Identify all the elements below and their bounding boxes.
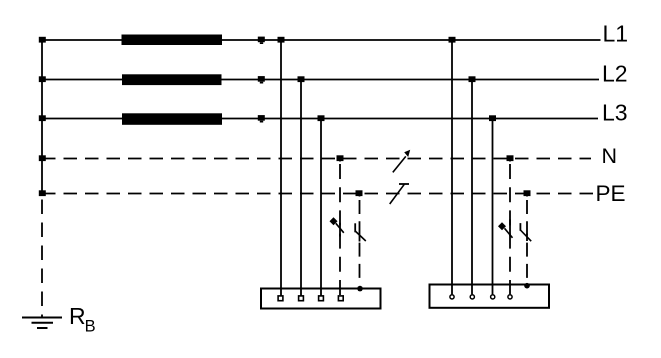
node load1 PE bond dot <box>357 286 363 292</box>
wire load2 N drop dashed <box>509 159 511 295</box>
node bus-L1 <box>39 37 46 43</box>
svg-text:R: R <box>69 303 86 329</box>
node terminal mark L1 <box>258 37 265 44</box>
node bus-PE <box>39 190 46 196</box>
node load1 PE tap <box>356 190 363 196</box>
switch S1 on load1 N drop <box>330 217 344 236</box>
svg-text:L1: L1 <box>603 21 629 47</box>
node load2 L3 tap <box>489 115 496 121</box>
wire load2 L1 drop <box>451 40 453 294</box>
svg-text:B: B <box>85 318 96 336</box>
switch S5 on load2 N drop <box>498 220 513 238</box>
wire L2 horizontal <box>42 79 599 81</box>
node load1 L2 tap <box>298 76 305 82</box>
load1 terminal T3 <box>319 296 324 301</box>
node load2 L2 tap <box>469 76 476 82</box>
svg-text:N: N <box>602 144 618 168</box>
node load1 L1 tap <box>278 37 285 43</box>
node load2 PE tap <box>524 190 531 196</box>
wire load1 L2 drop <box>300 80 302 297</box>
load2 terminal T2 <box>470 295 474 299</box>
switch S6 on load2 PE drop <box>520 223 531 241</box>
label N <box>602 144 618 168</box>
wire load2 L2 drop <box>471 80 473 295</box>
label L3 <box>602 100 628 126</box>
svg-text:L3: L3 <box>602 100 628 126</box>
switch S3 on N line with arrow <box>393 150 410 173</box>
wire PE horizontal dashed <box>42 193 594 195</box>
wire load1 N drop dashed <box>339 159 341 297</box>
svg-text:PE: PE <box>596 181 626 206</box>
load1 terminal T1 <box>278 296 283 301</box>
wire earthing conductor dashed <box>41 200 43 318</box>
wire load1 L1 drop <box>280 40 282 296</box>
label L2 <box>602 61 628 87</box>
wire N horizontal dashed <box>42 158 591 160</box>
node load2 N tap <box>507 155 514 161</box>
node terminal mark L2 <box>258 76 265 83</box>
node bus-N <box>39 155 46 161</box>
node load2 PE bond dot <box>524 283 530 289</box>
ground <box>22 318 62 329</box>
node load1 L3 tap <box>318 115 325 121</box>
node bus-L3 <box>39 115 46 121</box>
load1 box <box>261 289 381 309</box>
wire load2 L3 drop <box>492 119 494 295</box>
winding W3 <box>122 113 222 125</box>
load2 terminal T1 <box>450 295 454 299</box>
switch S2 on load1 PE drop <box>355 223 366 241</box>
wire load2 PE drop dashed <box>526 194 528 284</box>
node terminal mark L3 <box>258 115 265 122</box>
wire source bus vertical <box>41 40 43 194</box>
svg-text:L2: L2 <box>602 61 628 87</box>
winding W1 <box>122 35 223 46</box>
wire L1 horizontal <box>42 39 601 41</box>
load1 terminal T4 <box>338 296 343 301</box>
load2 terminal T4 <box>508 295 512 299</box>
label PE <box>596 181 626 206</box>
winding W2 <box>122 74 222 85</box>
node load2 L1 tap <box>449 37 456 43</box>
node bus-L2 <box>39 76 46 82</box>
wire load1 L3 drop <box>320 119 322 297</box>
load2 terminal T3 <box>491 295 495 299</box>
wire L3 horizontal <box>42 118 598 120</box>
switch S4 link on PE line <box>390 184 409 204</box>
wire load1 PE drop dashed <box>359 194 361 284</box>
node load1 N tap <box>337 155 344 161</box>
load2 box <box>430 285 550 308</box>
label RB <box>69 303 96 336</box>
load1 terminal T2 <box>299 296 304 301</box>
label L1 <box>603 21 629 47</box>
